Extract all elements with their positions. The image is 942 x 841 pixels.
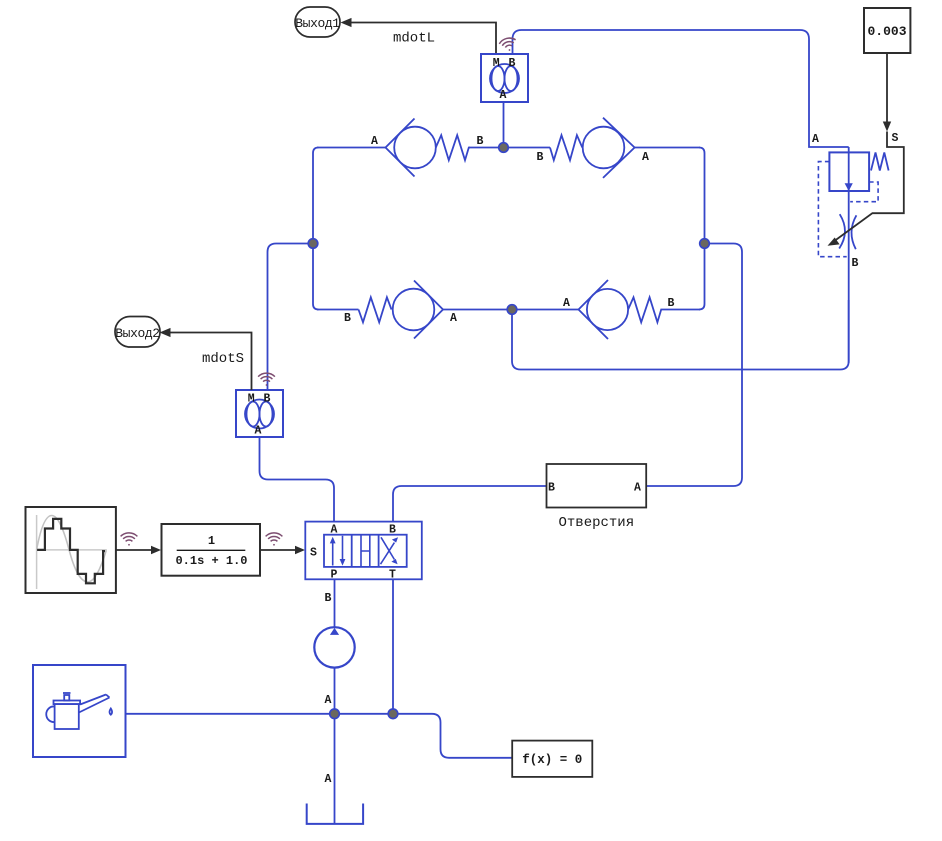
svg-text:B: B <box>389 524 396 537</box>
check valve bottom-right <box>579 280 665 339</box>
check valve top-right <box>550 118 635 178</box>
wire valve B to Отверстия B <box>393 486 547 522</box>
compensator box <box>829 152 869 191</box>
valve left cell arrows <box>332 542 334 566</box>
svg-text:B: B <box>508 57 515 70</box>
svg-text:A: A <box>500 89 507 102</box>
svg-text:B: B <box>477 135 484 148</box>
reservoir block <box>33 665 126 757</box>
signal arrow transfer fn to valve S <box>260 546 305 554</box>
wire sensor mdotS A to valve A <box>260 437 335 522</box>
check valve bottom-left <box>359 281 444 339</box>
signal wire 0.003 to S <box>883 53 891 132</box>
oil can icon <box>46 693 112 729</box>
wire bottom rail segments <box>317 309 700 311</box>
node bottom (bridge) <box>507 305 517 315</box>
svg-text:A: A <box>371 135 378 148</box>
svg-text:Выход2: Выход2 <box>115 326 159 341</box>
svg-text:0.1s + 1.0: 0.1s + 1.0 <box>175 554 247 568</box>
svg-text:A: A <box>563 297 570 310</box>
signal path S to orifice <box>833 132 904 243</box>
constant block 0.003 <box>864 8 910 53</box>
wire bridge left rail <box>313 148 319 310</box>
svg-text:S: S <box>892 132 899 145</box>
svg-text:A: A <box>812 133 819 146</box>
node left (bridge) <box>308 239 318 249</box>
orifice block Отверстия <box>547 464 647 508</box>
svg-text:mdotS: mdotS <box>202 351 244 367</box>
transfer function block <box>162 524 261 576</box>
svg-text:B: B <box>668 297 675 310</box>
variable orifice arcs <box>839 214 845 248</box>
svg-text:A: A <box>634 482 641 495</box>
signal wire mdotL to Выход1 <box>341 18 497 54</box>
svg-text:B: B <box>344 312 351 325</box>
wireless icon sensor mdotS <box>258 373 275 386</box>
signal wire mdotS to Выход2 <box>160 328 252 390</box>
node T (valve return) <box>388 709 398 719</box>
wire sensor mdotL A to bridge top node <box>503 102 505 148</box>
wireless icon after source <box>121 533 138 546</box>
directional valve 4/3 <box>305 522 422 582</box>
svg-text:mdotL: mdotL <box>393 31 435 47</box>
flow sensor mdotL <box>481 54 528 102</box>
wire flow valve main line <box>848 147 850 363</box>
wire valve T down to node <box>392 579 394 710</box>
svg-text:A: A <box>642 151 649 164</box>
wire top rail segments <box>317 147 700 149</box>
compensator arrow <box>845 183 853 191</box>
svg-text:B: B <box>325 592 332 605</box>
svg-text:1: 1 <box>208 534 215 548</box>
wire reservoir to node A and on to f(x) block <box>126 714 513 758</box>
svg-text:A: A <box>325 773 332 786</box>
svg-text:f(x) = 0: f(x) = 0 <box>522 753 582 767</box>
svg-text:B: B <box>537 151 544 164</box>
svg-text:B: B <box>263 393 270 406</box>
algebraic constraint block f(x)=0 <box>512 741 592 777</box>
tank <box>307 804 363 824</box>
compensator spring <box>871 153 889 171</box>
svg-text:M: M <box>248 393 255 406</box>
signal arrow source to transfer fn <box>116 546 161 554</box>
wire bridge bottom node to flow valve B <box>512 300 849 370</box>
bridge rails <box>313 148 705 310</box>
valve right cell X arrows <box>381 543 395 565</box>
svg-text:A: A <box>450 312 457 325</box>
svg-text:Отверстия: Отверстия <box>558 515 634 531</box>
wire bridge right rail <box>699 148 705 310</box>
output port Выход1 <box>295 7 340 37</box>
pilot line dashed small <box>850 182 878 202</box>
svg-text:Выход1: Выход1 <box>295 16 340 31</box>
wire bridge left node to sensor mdotS B <box>268 244 314 391</box>
pump <box>314 627 354 667</box>
svg-text:A: A <box>255 425 262 438</box>
valve centre cell H <box>361 535 370 567</box>
check valve top-left <box>386 119 471 177</box>
wire bridge right node to Отверстия A <box>646 244 742 487</box>
node right (bridge) <box>700 239 710 249</box>
pilot line dashed large <box>818 162 846 257</box>
flow control valve (pressure compensated) <box>812 132 904 364</box>
wire pump to node A <box>334 668 336 710</box>
wire node A to tank <box>334 714 336 824</box>
node top (bridge) <box>499 143 509 153</box>
svg-text:B: B <box>852 257 859 270</box>
svg-text:A: A <box>331 524 338 537</box>
svg-text:M: M <box>493 57 500 70</box>
wireless icon after transfer fn <box>266 533 283 546</box>
svg-text:A: A <box>325 694 332 707</box>
node A (pump outlet) <box>330 709 340 719</box>
svg-text:S: S <box>310 547 317 560</box>
wireless icon sensor mdotL <box>498 36 517 52</box>
svg-text:B: B <box>548 482 555 495</box>
flow sensor mdotS <box>236 390 283 438</box>
signal source block <box>26 507 116 593</box>
output port Выход2 <box>115 317 160 348</box>
wire valve P to pump <box>334 579 336 627</box>
svg-text:0.003: 0.003 <box>867 24 906 39</box>
hydraulic wire sensor mdotL B to flow valve A <box>513 30 849 147</box>
